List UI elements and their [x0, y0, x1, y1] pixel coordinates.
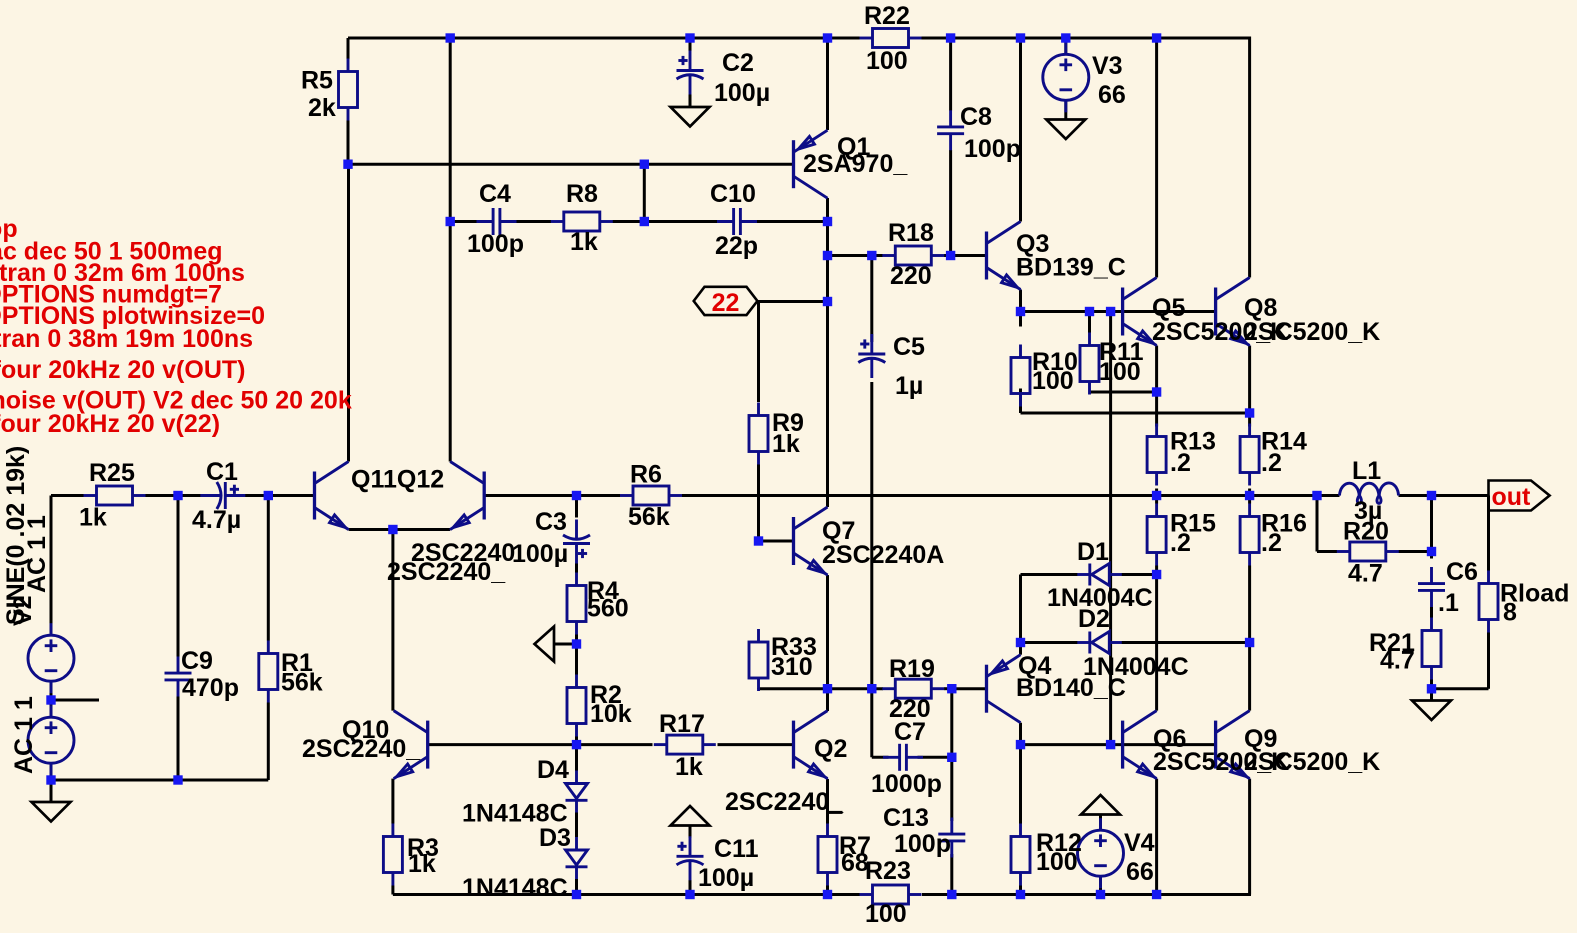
transistor Q7 2SC2240A — [794, 507, 828, 575]
svg-text:470p: 470p — [182, 674, 239, 702]
svg-text:C7: C7 — [894, 718, 926, 746]
transistor Q1 2SA970 — [794, 130, 828, 198]
junction row/C3 — [572, 491, 581, 500]
svg-text:100µ: 100µ — [714, 79, 770, 107]
wire gnd stub left — [554, 643, 577, 646]
wire C11 bottom stub — [689, 880, 692, 895]
junction C4 row/x450 — [446, 217, 455, 226]
wire input bottom wire — [51, 779, 268, 782]
junction outrail/C6 — [1427, 491, 1436, 500]
wire V- bottom rail left of R23 — [393, 893, 860, 896]
diode D2 1N4004 — [1077, 632, 1122, 654]
svg-text:1k: 1k — [675, 753, 703, 781]
svg-text:100p: 100p — [964, 135, 1021, 163]
net flag 22 — [694, 287, 758, 315]
svg-text:22: 22 — [712, 289, 740, 317]
svg-text:100: 100 — [1099, 358, 1141, 386]
capacitor C1 4.7u — [200, 482, 245, 509]
wire C2 top stub — [689, 38, 692, 51]
wire Q1 collector column down to Q7 — [826, 198, 829, 507]
svg-text:C2: C2 — [722, 49, 754, 77]
capacitor C9 470p — [165, 657, 192, 697]
wire x952 column C7 to C13 — [950, 757, 953, 821]
wire C5 bottom long wire — [870, 382, 873, 757]
svg-text:D4: D4 — [537, 756, 569, 784]
junction inrow/C9 — [173, 491, 182, 500]
wire mid stub right — [51, 699, 99, 702]
svg-text:C6: C6 — [1446, 558, 1478, 586]
svg-text:2SC2240_: 2SC2240_ — [725, 788, 844, 816]
svg-text:AC 1 1: AC 1 1 — [23, 515, 51, 593]
wire V2 to V1 link upper — [50, 681, 53, 700]
wire D3 to bottom rail — [575, 879, 578, 895]
wire V3 top stub — [1064, 38, 1067, 55]
wire Rload bottom row — [1432, 687, 1489, 690]
junction Q5e/R11row — [1152, 387, 1161, 396]
svg-text:V2: V2 — [9, 595, 37, 626]
svg-text:R20: R20 — [1343, 518, 1389, 546]
capacitor C2 100u — [677, 51, 704, 95]
svg-text:100p: 100p — [467, 230, 524, 258]
capacitor C10 22p — [717, 208, 757, 235]
junction D1/R15 — [1152, 570, 1161, 579]
wire Q1 emitter column — [826, 38, 829, 130]
svg-text:.four 20kHz 20 v(22): .four 20kHz 20 v(22) — [0, 410, 220, 438]
capacitor C8 100p — [937, 110, 964, 150]
wire R12 top wire — [1019, 745, 1022, 824]
svg-text:R8: R8 — [566, 180, 598, 208]
wire R19 to Q4 base — [952, 687, 987, 690]
junction baserow/Q4c — [1016, 740, 1025, 749]
wire R15 top stub — [1155, 496, 1158, 504]
wire Q5 emitter to junction — [1155, 346, 1158, 393]
wire Rload bottom riser — [1487, 633, 1490, 689]
svg-text:100: 100 — [1036, 848, 1078, 876]
svg-text:22p: 22p — [715, 232, 758, 260]
resistor R15 — [1147, 504, 1166, 566]
wire R20 right lead — [1399, 550, 1432, 553]
wire R11 top stub — [1088, 312, 1091, 333]
svg-text:10k: 10k — [590, 700, 632, 728]
junction R4 gnd node — [572, 639, 581, 648]
wire Q7 emitter down to R19 node — [826, 575, 829, 689]
wire C3 to R4 — [575, 564, 578, 573]
wire C13 to bottom rail — [950, 854, 953, 895]
inductor L1 3u — [1340, 483, 1399, 503]
junction biasrow/R11 — [1085, 307, 1094, 316]
wire D1 node down to Q6 collector — [1155, 575, 1158, 711]
svg-text:.1: .1 — [1438, 589, 1459, 617]
junction C7/x952 — [947, 753, 956, 762]
svg-text:2SC5200_K: 2SC5200_K — [1244, 318, 1380, 346]
capacitor C5 1u — [858, 334, 885, 378]
diode D3 1N4148 — [566, 837, 588, 879]
ground above V4 — [1081, 795, 1120, 815]
svg-text:R19: R19 — [889, 655, 935, 683]
junction brail/V4 — [1096, 890, 1105, 899]
wire Q1 collector node to R18 row — [828, 254, 884, 257]
wire gnd node to R2 — [575, 644, 578, 675]
junction R19row/Q4b — [947, 684, 956, 693]
voltage source V2 — [28, 623, 74, 693]
svg-text:D3: D3 — [539, 824, 571, 852]
wire rail to Q3 collector column — [1019, 38, 1022, 222]
svg-text:2SA970_: 2SA970_ — [803, 150, 908, 178]
junction R19row/C5 — [867, 684, 876, 693]
ground at C2 — [671, 107, 710, 127]
svg-text:V4: V4 — [1124, 829, 1155, 857]
svg-text:4.7µ: 4.7µ — [192, 506, 241, 534]
wire Q9 emitter down — [1248, 779, 1251, 895]
wire Q8 collector column — [1248, 37, 1251, 278]
junction rail164/x644 — [640, 160, 649, 169]
wire R3 bottom stub — [391, 886, 394, 895]
wire Q2 emitter down to R7 — [826, 779, 829, 824]
svg-text:1µ: 1µ — [895, 372, 923, 400]
resistor R21 — [1422, 618, 1441, 680]
resistor R9 — [749, 403, 768, 465]
wire R5 bottom stub — [347, 121, 350, 165]
wire Q6 emitter down — [1155, 779, 1158, 895]
junction D2 left — [1016, 638, 1025, 647]
resistor R18 — [882, 246, 944, 265]
junction brail/R12 — [1016, 890, 1025, 899]
svg-text:C8: C8 — [960, 103, 992, 131]
wire C4 to R8 — [514, 220, 552, 223]
wire C6 to R21 — [1430, 607, 1433, 618]
junction brail/D3 — [572, 890, 581, 899]
junction inrow/R1 — [264, 491, 273, 500]
wire C3 node to R6 — [577, 494, 621, 497]
resistor R20 — [1337, 542, 1399, 561]
wire input left column top — [50, 496, 53, 636]
resistor R33 — [749, 629, 768, 691]
wire D1 row left — [1021, 573, 1078, 576]
svg-text:R17: R17 — [659, 710, 705, 738]
junction biasrow/Q3e — [1016, 307, 1025, 316]
wire C2 to ground — [689, 95, 692, 108]
wire R11 bottom row — [1090, 391, 1157, 394]
junction V2/V1 — [46, 695, 55, 704]
ground at C11 — [671, 806, 710, 826]
wire L1 right lead — [1399, 494, 1432, 497]
resistor R3 — [383, 824, 402, 886]
voltage source V3 — [1043, 42, 1089, 112]
wire Q4 collector stub — [1019, 723, 1022, 745]
diode D4 1N4148 — [566, 771, 588, 813]
resistor R16 — [1240, 504, 1259, 566]
wire x644 riser — [643, 164, 646, 221]
wire stray stub at Q2 emitter — [828, 811, 843, 814]
wire R19 row left — [828, 687, 884, 690]
wire R16 top stub — [1248, 496, 1251, 504]
resistor R19 — [882, 679, 944, 698]
wire R6 to L1 long out rail — [682, 494, 1317, 497]
junction rail/V3 — [1061, 33, 1070, 42]
resistor R7 — [818, 824, 837, 886]
svg-text:100: 100 — [865, 900, 907, 928]
svg-text:1k: 1k — [79, 504, 107, 532]
junction rail/x450 — [446, 33, 455, 42]
svg-text:8: 8 — [1503, 599, 1517, 627]
wire R14 to out rail — [1248, 489, 1251, 496]
wire R20 left lead — [1317, 550, 1337, 553]
svg-text:66: 66 — [1126, 858, 1154, 886]
wire R15 bottom to D1 node — [1155, 566, 1158, 575]
wire Q10 base row — [428, 743, 653, 746]
junction R2/base node — [572, 740, 581, 749]
wire R18 to Q3 base — [944, 254, 987, 257]
wire Q2 collector up to R19 node — [826, 689, 829, 711]
junction rail/C8 — [946, 33, 955, 42]
capacitor C6 0.1 — [1418, 567, 1445, 607]
voltage source V1 — [28, 705, 74, 775]
wire Q4 emitter stub — [1019, 643, 1022, 655]
junction outrail/R13 — [1152, 491, 1161, 500]
wire R25 to C1 — [146, 494, 202, 497]
wire D4 top link — [575, 745, 578, 771]
junction brail/C13 — [947, 890, 956, 899]
resistor R8 — [551, 212, 613, 231]
wire V+ top rail right of R22 — [922, 37, 1252, 40]
svg-text:.tran 0 38m 19m 100ns: .tran 0 38m 19m 100ns — [0, 325, 253, 353]
junction rail/Q3c — [1016, 33, 1025, 42]
svg-text:R23: R23 — [865, 857, 911, 885]
svg-text:4.7: 4.7 — [1348, 560, 1383, 588]
junction C10/Q1c — [823, 217, 832, 226]
wire D2 row right — [1122, 641, 1250, 644]
wire V+ top rail left of R22 — [348, 37, 860, 40]
svg-text:C9: C9 — [181, 647, 213, 675]
junction C9 bottom — [173, 775, 182, 784]
resistor R6 — [620, 486, 682, 505]
junction R19row/Q2Q7 — [823, 684, 832, 693]
wire R1 top riser — [267, 496, 270, 641]
svg-text:66: 66 — [1098, 81, 1126, 109]
junction C4 row/x644 — [640, 217, 649, 226]
resistor R11 — [1080, 333, 1099, 395]
resistor R10 — [1011, 345, 1030, 407]
svg-text:1k: 1k — [408, 850, 436, 878]
wire R33 corner to Q2 collector node — [759, 687, 828, 690]
svg-text:2k: 2k — [308, 94, 336, 122]
transistor Q9 2SC5200 — [1216, 711, 1250, 779]
wire x952 column R19 to C7 — [950, 689, 953, 758]
junction tail — [388, 525, 397, 534]
wire C8 top stub — [949, 38, 952, 111]
svg-text:out: out — [1492, 483, 1532, 511]
wire Q12 collector column x450 — [449, 38, 452, 462]
wire Q11 collector riser — [347, 164, 350, 461]
svg-text:1000p: 1000p — [871, 770, 942, 798]
svg-text:AC 1 1: AC 1 1 — [10, 696, 38, 774]
resistor R2 — [567, 675, 586, 737]
svg-text:C13: C13 — [883, 804, 929, 832]
junction rail/Q1e — [823, 33, 832, 42]
svg-text:D2: D2 — [1078, 605, 1110, 633]
wire node 22 down to R9 — [757, 302, 760, 403]
wire C1 to Q11 base — [244, 494, 315, 497]
wire C9 bottom riser — [177, 697, 180, 781]
svg-text:56k: 56k — [281, 669, 323, 697]
svg-text:1N4004C: 1N4004C — [1083, 653, 1189, 681]
wire V4 bottom stub — [1099, 876, 1102, 895]
wire bias row Q3-Q5-Q8 — [1021, 310, 1216, 313]
net flag out — [1489, 481, 1550, 511]
wire C7 row right — [918, 756, 952, 759]
junction zobel gnd — [1427, 684, 1436, 693]
transistor Q8 2SC5200 — [1216, 278, 1250, 346]
wire VAS base rail y164 — [348, 163, 794, 166]
transistor Q10 2SC2240 — [394, 711, 428, 779]
junction brail/C11 — [685, 890, 694, 899]
junction brail/Q6e — [1152, 890, 1161, 899]
wire emitter tail row — [349, 528, 451, 531]
wire gnd stub input — [50, 780, 53, 802]
wire node 22 stub right — [757, 300, 827, 303]
svg-text:2SC2240A: 2SC2240A — [822, 541, 944, 569]
svg-text:.2: .2 — [1170, 449, 1191, 477]
wire C7 row left — [872, 756, 889, 759]
capacitor C3 100u flipped — [563, 520, 590, 564]
ground at R4 — [535, 627, 555, 662]
wire R5 top stub — [347, 38, 350, 59]
junction R5/rail164 — [343, 160, 352, 169]
junction rail/Q5c — [1152, 33, 1161, 42]
svg-text:.2: .2 — [1261, 449, 1282, 477]
transistor Q2 2SC2240 — [794, 711, 828, 779]
wire R17 to Q2 base — [718, 743, 794, 746]
svg-text:L1: L1 — [1352, 457, 1381, 485]
resistor R4 — [567, 573, 586, 635]
svg-text:100: 100 — [866, 47, 908, 75]
wire R10 bottom row to Q8 emitter node — [1021, 412, 1250, 415]
transistor Q12 2SC2240 — [450, 462, 484, 530]
capacitor C4 100p — [477, 208, 517, 235]
wire R9 to Q7 base node — [757, 465, 760, 542]
wire Rload top riser — [1487, 496, 1490, 571]
ground at input — [32, 802, 71, 822]
svg-text:220: 220 — [890, 262, 932, 290]
resistor R1 — [259, 641, 278, 703]
junction rail/C2 — [685, 33, 694, 42]
transistor Q5 2SC5200 — [1123, 278, 1157, 346]
svg-text:1k: 1k — [570, 228, 598, 256]
svg-text:1N4148C: 1N4148C — [462, 874, 568, 902]
wire C8 bottom to Q3 base node — [949, 150, 952, 256]
ground at zobel — [1412, 701, 1451, 721]
wire L1 left lead — [1317, 494, 1340, 497]
diode D1 1N4004 — [1077, 564, 1122, 586]
wire x1111 long column — [1109, 312, 1112, 745]
ground at V3 — [1046, 120, 1085, 140]
wire R20 branch down — [1316, 496, 1319, 552]
wire R16 bottom to D2 node — [1248, 566, 1251, 643]
wire C4 row left — [450, 220, 479, 223]
svg-text:100p: 100p — [894, 830, 951, 858]
wire zobel gnd stub — [1430, 689, 1433, 701]
svg-text:R22: R22 — [864, 2, 910, 30]
svg-text:Q2: Q2 — [814, 735, 847, 763]
svg-text:R6: R6 — [630, 461, 662, 489]
wire D1 row right — [1122, 573, 1157, 576]
wire R10 bottom corner — [1019, 389, 1022, 414]
svg-text:D1: D1 — [1077, 538, 1109, 566]
transistor Q11 2SC2240 — [315, 462, 349, 530]
svg-text:2SC5200_K: 2SC5200_K — [1244, 748, 1380, 776]
wire V1 bottom link — [50, 763, 53, 780]
svg-text:.2: .2 — [1170, 529, 1191, 557]
wire D2 row left — [1021, 641, 1078, 644]
junction brail/R7 — [823, 890, 832, 899]
resistor R5 — [339, 59, 358, 121]
svg-text:R5: R5 — [301, 67, 333, 95]
junction R20/C6 — [1427, 547, 1436, 556]
svg-text:56k: 56k — [628, 503, 670, 531]
junction R18row/Q1c — [823, 251, 832, 260]
wire C6 top link — [1430, 496, 1433, 559]
transistor Q6 2SC5200 — [1123, 711, 1157, 779]
wire Q5 collector column — [1155, 38, 1158, 278]
wire output base row — [1021, 743, 1216, 746]
wire R2 to base node — [575, 737, 578, 745]
transistor Q4 BD140 — [987, 655, 1021, 723]
wire V1 top link — [50, 700, 53, 717]
svg-text:.2: .2 — [1261, 529, 1282, 557]
svg-text:V3: V3 — [1092, 52, 1123, 80]
svg-text:2SC2240_: 2SC2240_ — [302, 735, 421, 763]
wire R13 link — [1155, 392, 1158, 427]
svg-text:100µ: 100µ — [698, 864, 754, 892]
junction node22/Q1c — [823, 297, 832, 306]
voltage source V4 — [1078, 818, 1124, 888]
junction D2/R16 — [1245, 638, 1254, 647]
wire Q8 emitter down — [1248, 346, 1251, 414]
resistor R13 — [1147, 424, 1166, 486]
wire R12 bottom stub — [1019, 886, 1022, 895]
wire input row left — [51, 494, 84, 497]
wire R14 link — [1248, 413, 1251, 427]
svg-text:100: 100 — [1032, 367, 1074, 395]
wire R7 bottom stub — [826, 886, 829, 895]
svg-text:R25: R25 — [89, 459, 135, 487]
wire R13 to out rail — [1155, 489, 1158, 496]
wire tail column — [391, 530, 394, 711]
svg-text:560: 560 — [587, 595, 629, 623]
svg-text:C3: C3 — [535, 508, 567, 536]
wire R21 to gnd node — [1430, 680, 1433, 689]
resistor R14 — [1240, 424, 1259, 486]
svg-text:C5: C5 — [893, 333, 925, 361]
svg-text:4.7: 4.7 — [1380, 647, 1415, 675]
wire C11 gnd to cap — [689, 826, 692, 839]
wire R1 bottom riser — [267, 703, 270, 781]
svg-text:C4: C4 — [479, 180, 511, 208]
junction R18row/C8-Q3b — [946, 251, 955, 260]
resistor R25 — [84, 486, 146, 505]
wire D4-D3 link — [575, 813, 578, 838]
wire R4 to gnd node — [575, 635, 578, 645]
wire R8 to junction — [613, 220, 645, 223]
resistor R12 — [1011, 824, 1030, 886]
transistor Q3 BD139 — [987, 222, 1021, 290]
capacitor C11 100u — [677, 836, 704, 880]
junction outrail/L1 — [1312, 491, 1321, 500]
wire Q7 base wire — [759, 540, 794, 543]
wire D2 node down to Q9 collector — [1248, 643, 1251, 711]
wire V4 gnd stub — [1099, 815, 1102, 831]
resistor R22 — [860, 29, 922, 48]
